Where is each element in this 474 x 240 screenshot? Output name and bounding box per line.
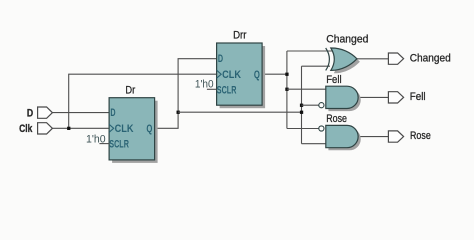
output port Fell [388, 91, 425, 103]
svg-text:Rose: Rose [326, 113, 347, 125]
wire Clk input to Dr.CLK [52, 127, 109, 129]
output port Rose [388, 130, 430, 142]
flip-flop Dr [109, 85, 158, 163]
input port D [27, 107, 53, 120]
svg-text:Changed: Changed [326, 34, 368, 46]
and gate Fell (Drr & ~Dr) [319, 74, 361, 111]
wire Drr.Q to Fell top input [287, 88, 326, 90]
junction Clk net [67, 127, 70, 130]
output port Changed [388, 53, 450, 65]
svg-text:1'h0: 1'h0 [86, 133, 106, 145]
wire Drr.Q to XOR top input [287, 50, 332, 52]
wire Drr.Q to Rose bubble input [287, 128, 319, 130]
svg-text:Fell: Fell [410, 91, 426, 103]
svg-text:Dr: Dr [125, 85, 135, 97]
svg-text:CLK: CLK [222, 69, 241, 81]
input port Clk [19, 123, 52, 135]
constant 1'h0 on Drr.SCLR [195, 79, 217, 91]
wire Dr.Q to Drr.D [155, 59, 217, 129]
wire Fell output to Fell port [358, 96, 388, 98]
wire Drr.Q to bus [262, 73, 287, 75]
svg-text:Fell: Fell [326, 74, 341, 86]
svg-text:D: D [218, 53, 223, 65]
and gate Rose (Dr & ~Drr) [319, 113, 361, 150]
xor gate Changed (U: Dr ^ Drr) [326, 34, 369, 74]
wire D input to Dr.D [52, 112, 109, 114]
wire Drr.Q vertical bus [286, 51, 288, 129]
wire XOR output to Changed port [357, 58, 389, 60]
junction Drr.Q bus at Q [285, 73, 288, 76]
junction node Dr.Q [177, 111, 180, 114]
constant 1'h0 on Dr.SCLR [86, 133, 109, 145]
wire Dr.Q to XOR bottom input [302, 65, 331, 67]
svg-text:SCLR: SCLR [217, 84, 237, 96]
svg-text:Rose: Rose [410, 130, 431, 142]
wire Dr.Q to Rose bottom input [302, 143, 326, 145]
junction Dr.Q bus to Fell [300, 104, 303, 107]
wire Dr.Q to Fell bubble input [302, 104, 319, 106]
svg-text:1'h0: 1'h0 [195, 79, 214, 91]
svg-text:D: D [27, 108, 33, 120]
wire Rose output to Rose port [358, 136, 388, 138]
svg-text:Q: Q [254, 69, 260, 81]
wire Clk riser to Drr.CLK [69, 74, 217, 128]
junction Dr.Q bus at branch [300, 111, 303, 114]
wire Dr.Q branch to gates [178, 111, 301, 113]
wire Dr.Q vertical bus [301, 66, 303, 144]
svg-text:Changed: Changed [410, 53, 451, 65]
junction Drr.Q bus to Fell [285, 88, 288, 91]
svg-text:Drr: Drr [233, 30, 247, 42]
svg-text:Q: Q [146, 123, 152, 135]
svg-text:SCLR: SCLR [109, 139, 129, 151]
flip-flop Drr [217, 30, 266, 109]
svg-text:CLK: CLK [115, 123, 134, 135]
svg-text:D: D [110, 107, 115, 119]
svg-text:Clk: Clk [19, 123, 33, 135]
